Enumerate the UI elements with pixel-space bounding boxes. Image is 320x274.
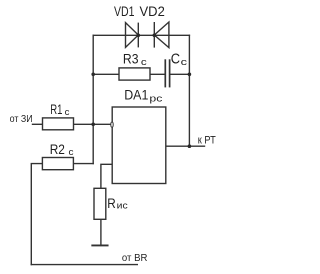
resistor R2: [42, 158, 73, 170]
svg-text:ис: ис: [117, 201, 128, 211]
svg-text:к РТ: к РТ: [198, 134, 216, 146]
resistor Ris: [94, 188, 106, 219]
wire non-inverting pin to Ris: [101, 164, 112, 188]
wire right vertical feedback: [188, 35, 190, 146]
resistor R1: [43, 118, 74, 130]
svg-text:с: с: [141, 57, 147, 67]
svg-text:от ЗИ: от ЗИ: [10, 114, 33, 125]
svg-text:DA1: DA1: [124, 87, 148, 102]
svg-text:рс: рс: [149, 93, 162, 103]
wire output: [166, 145, 205, 147]
svg-text:C: C: [171, 52, 180, 68]
diode VD1: [126, 23, 139, 48]
wire R2 left down to bottom rail: [31, 164, 42, 265]
capacitor Cc plates: [165, 59, 169, 87]
resistor R3: [119, 68, 150, 80]
op-amp U1 DA1 body: [112, 107, 166, 184]
node dot RC-left inverting vertical: [91, 73, 95, 77]
wire R1 to op-amp input: [74, 123, 111, 125]
svg-text:с: с: [65, 107, 70, 117]
node dot VD1 cathode: [137, 34, 141, 38]
wire input from ot ZI: [33, 123, 43, 125]
wire RC branch mid: [150, 73, 164, 75]
svg-text:R3: R3: [123, 52, 139, 67]
svg-text:VD2: VD2: [140, 4, 165, 19]
svg-text:R2: R2: [50, 142, 65, 157]
svg-text:R: R: [107, 195, 116, 211]
wire Ris to ground: [100, 219, 102, 245]
node dot RC-right feedback vertical: [188, 73, 192, 77]
wire top diode branch: [93, 34, 189, 36]
svg-text:от BR: от BR: [122, 253, 148, 264]
op-amp inverting input bubble: [111, 122, 113, 127]
diode VD2: [154, 22, 169, 48]
wire RC branch left: [93, 73, 119, 75]
wire left vertical inverting node: [92, 35, 94, 163]
wire RC branch right: [171, 73, 190, 75]
node dot input inverting vertical: [91, 123, 95, 127]
svg-text:VD1: VD1: [114, 4, 135, 19]
svg-text:с: с: [69, 147, 75, 157]
wire bottom rail ot BR: [31, 264, 137, 266]
node dot output: [188, 144, 192, 148]
svg-text:R1: R1: [50, 102, 62, 117]
ground: [92, 244, 107, 246]
wire R2 right to inverting node: [73, 163, 93, 165]
svg-text:с: с: [181, 57, 188, 67]
node dot VD2 cathode: [153, 34, 157, 38]
